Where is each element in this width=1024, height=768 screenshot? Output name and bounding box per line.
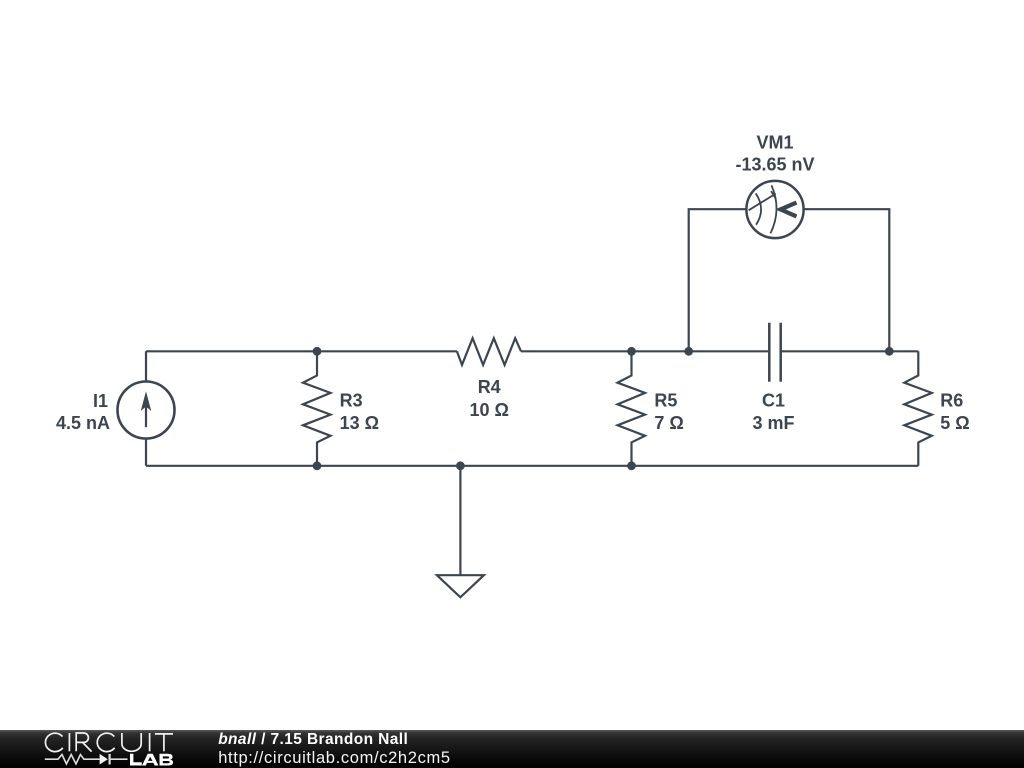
svg-text:3 mF: 3 mF xyxy=(752,413,794,433)
svg-text:bnall / 7.15 Brandon Nall: bnall / 7.15 Brandon Nall xyxy=(218,731,408,748)
svg-text:13 Ω: 13 Ω xyxy=(340,413,379,433)
svg-text:R4: R4 xyxy=(478,377,501,397)
svg-text:-13.65 nV: -13.65 nV xyxy=(735,155,814,175)
svg-text:R3: R3 xyxy=(340,391,363,411)
svg-text:10 Ω: 10 Ω xyxy=(469,400,508,420)
svg-text:VM1: VM1 xyxy=(756,133,793,153)
svg-text:C1: C1 xyxy=(762,391,785,411)
svg-text:4.5 nA: 4.5 nA xyxy=(56,413,110,433)
svg-text:http://circuitlab.com/c2h2cm5: http://circuitlab.com/c2h2cm5 xyxy=(218,749,451,767)
svg-text:5 Ω: 5 Ω xyxy=(940,413,969,433)
svg-text:R6: R6 xyxy=(940,391,963,411)
svg-text:R5: R5 xyxy=(654,391,677,411)
svg-text:I1: I1 xyxy=(93,391,108,411)
svg-text:7 Ω: 7 Ω xyxy=(654,413,683,433)
